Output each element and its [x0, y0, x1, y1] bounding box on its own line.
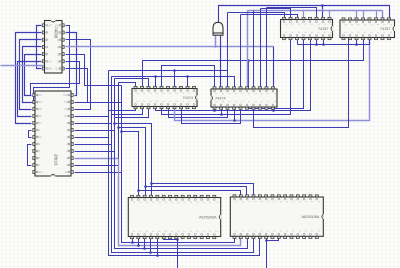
wire U1 pin2R to U2 pin1R	[66, 33, 77, 96]
wire U3 pin7t stub	[174, 71, 176, 89]
wire rail y76.5 bundle v2 to U4 pin4t	[112, 77, 235, 90]
svg-text:I/O0: I/O0	[64, 114, 70, 118]
wire rail y10.5 drop U6p3t	[356, 11, 358, 21]
wire U1 pin7R to U2 pin2R	[66, 69, 88, 103]
junction v1 feed	[120, 130, 123, 133]
wire M2 pin6b down offcanvas	[266, 237, 268, 268]
wire feed V1 to M1 pin2t	[122, 132, 139, 198]
junction M1 pin drop	[143, 247, 146, 250]
junction v2 feed	[117, 126, 120, 129]
junction U4p4b	[233, 119, 236, 122]
svg-text:A: A	[46, 31, 48, 35]
wire rail y110.7 U3p4b to U5 pin5b	[156, 38, 311, 111]
wire bundle v4 lower light wrap rail y245.4 to M2 pin2b	[119, 159, 241, 246]
wire rail y10.5 drop U6p4t	[363, 11, 365, 21]
wire rail y117.3 U3p6b to U4 pin3b	[169, 107, 228, 118]
svg-text:A10: A10	[36, 135, 42, 139]
junction V2 branch	[144, 185, 147, 188]
svg-text:I/O5: I/O5	[36, 107, 42, 111]
wire U1 pin5L to U2 pin1L	[25, 55, 42, 96]
wire M1 bottom pin drop	[138, 237, 140, 246]
wire U2 row144 to bus x111.8	[75, 144, 112, 146]
wire U1 pin6L to U2 pin4L	[18, 62, 42, 117]
wire rail y10.5 drop U5p8t	[329, 11, 331, 20]
IC M2 A625308A SRAM	[230, 195, 323, 239]
svg-text:I/O2: I/O2	[64, 100, 70, 104]
wire M1 pin8b down offcanvas	[177, 237, 179, 268]
svg-text:74374: 74374	[215, 96, 226, 100]
wire U2 row102 extension to bundle v5	[75, 102, 122, 104]
wire U6 pin3b stub	[356, 38, 358, 45]
wire AND output rail y5 to U6 pin8t	[219, 6, 390, 23]
wire rail y10.5 drop U6p6t	[376, 11, 378, 21]
wire rail y65.3 U3p5t to U4 pin1t	[162, 66, 215, 90]
junction U4p1b	[213, 109, 216, 112]
junction U3p4t	[154, 75, 157, 78]
wire U1 pin6R wrap over U2 to pin1L	[31, 62, 80, 96]
junction U3p7t	[173, 69, 176, 72]
svg-text:I/O6: I/O6	[36, 114, 42, 118]
svg-text:74374: 74374	[182, 96, 193, 100]
wire U2 row165 to bus x118.1	[75, 165, 119, 167]
junction M1 pin drop	[156, 254, 159, 257]
wire rail y10.5 drop U5p4t	[303, 11, 305, 20]
wire M1 bottom pin drop	[150, 237, 152, 253]
svg-text:CLK: CLK	[55, 67, 61, 71]
wire feed V2 to M1 pin3t	[119, 128, 146, 198]
wire U3 pin3b left rail y117.3	[115, 107, 149, 118]
wire U4 pin10b stub	[273, 108, 275, 111]
wire bundle v3 wrap rail y248.8 to M2 pin3b	[115, 79, 248, 249]
wire M1 bottom pin drop	[157, 237, 159, 256]
svg-text:CLA: CLA	[46, 60, 52, 64]
wire V3 branch rail to M2 pin4t	[152, 184, 254, 198]
svg-text:I/O4: I/O4	[36, 100, 42, 104]
svg-text:I/O7: I/O7	[36, 121, 42, 125]
IC U2 28c16 EEPROM	[33, 91, 73, 177]
svg-text:CLR: CLR	[46, 24, 53, 28]
IC U4 74374 latch	[211, 87, 278, 109]
wire rail y8.9 to U5 pin2t	[261, 9, 291, 20]
svg-text:A6: A6	[66, 156, 70, 160]
junction M1 pin drop	[149, 251, 152, 254]
wire U2 row130 to bus x114.9	[75, 130, 115, 132]
wire light rail y65.5 from canvas edge to U1	[1, 65, 45, 67]
wire rail y44 U5/U6 bottom tie	[298, 38, 370, 45]
svg-text:I/O1: I/O1	[64, 107, 70, 111]
svg-text:74068: 74068	[54, 27, 59, 39]
svg-text:A625308A: A625308A	[199, 215, 217, 219]
svg-text:OE: OE	[36, 142, 40, 146]
wire U1 pin1R-pin7R tie wrap to U2 pin2L	[32, 26, 70, 103]
wire U3 pin2b left rail y114	[112, 107, 143, 115]
wire U1 pin7R stub to tie	[66, 68, 70, 70]
wire rail y7.5 to U5 pin6t	[267, 8, 317, 20]
junction U5p7b rail44	[322, 43, 325, 46]
svg-text:A7: A7	[66, 163, 70, 167]
wire rail y123.5 U3p8b to U4 pin5b	[182, 107, 241, 124]
svg-text:Q4: Q4	[57, 60, 61, 64]
wire rail y8.9 drop U4 pin8t	[260, 9, 262, 90]
svg-text:Q2: Q2	[57, 45, 61, 49]
junction y5 U5p7t	[321, 4, 324, 7]
svg-text:74157: 74157	[380, 27, 391, 31]
junction M2 pin6b	[265, 239, 268, 242]
junction U4p10b	[272, 109, 275, 112]
wire V1 branch rail to M2 pin2t	[139, 191, 241, 198]
wire U4 pin4b stub	[234, 108, 236, 121]
wire bundle v2 wrap rail y252.2 to M2 pin4b	[112, 77, 254, 253]
wire y5 branch to U5 pin7t	[322, 6, 324, 20]
wire M1 bottom pin drop	[132, 237, 134, 243]
junction U5p6b rail44	[315, 43, 318, 46]
wire U1 pin1L-pin7L tie	[37, 26, 42, 69]
junction V1 branch	[137, 189, 140, 192]
wire bundle v4 upper	[118, 83, 120, 159]
wire U4 pin9b stub	[266, 108, 268, 109]
svg-text:A1: A1	[66, 121, 70, 125]
wire feed V3 to M1 pin4t	[115, 124, 152, 198]
svg-text:VCC: VCC	[36, 170, 43, 174]
wire bundle v1 wrap rail y255.6 to M2 pin5b	[109, 71, 260, 256]
junction M1p8b rail end	[176, 238, 179, 241]
wire U1 pin5R to bundle v5	[66, 55, 122, 86]
svg-text:A625308A: A625308A	[302, 215, 320, 219]
wire U5 pin3b stub	[297, 38, 299, 45]
IC U6 74157 mux	[340, 18, 395, 40]
wire rail y10.5 drop U4 pin6t	[247, 11, 249, 90]
wire rail y82.3 bundle v4 to U3 pin1t	[119, 83, 136, 89]
svg-text:A11: A11	[65, 170, 70, 174]
junction rail46 AND input	[214, 45, 217, 48]
wire light rail y120 U3p7b to U6 pin5b	[175, 38, 370, 121]
wire rail y60.8 U3p2t to U6 pin4b	[143, 38, 364, 89]
wire U2 pin6L-7L bracket	[29, 131, 32, 138]
wire branch x248 down to U5 pin4b	[249, 38, 304, 109]
junction M1 pin drop	[131, 241, 134, 244]
wire AND right input to U4 pin2t	[220, 36, 222, 90]
wire U3 pin1b left rail y110.7	[109, 107, 136, 111]
wire bundle v5 wrap rail y242 to M2 pin1b	[122, 86, 235, 243]
wire U4 pin3t riser to rail y12.6	[227, 13, 229, 71]
svg-text:A2: A2	[66, 128, 70, 132]
wire rail y78.8 bundle v3 to U3 pin3t	[115, 79, 149, 89]
wire U5 pin6b stub	[316, 38, 318, 45]
svg-text:I/O3: I/O3	[36, 93, 42, 97]
wire light rail y10.5	[248, 10, 383, 12]
svg-text:28c16: 28c16	[53, 154, 58, 166]
wire U1 pin4R light rail y46	[66, 46, 274, 48]
wire U2 row158 light to bundle v4	[75, 158, 119, 160]
wire M1 bottom pin drop	[144, 237, 146, 249]
svg-text:GND: GND	[63, 93, 71, 97]
junction U4p9b	[265, 107, 268, 110]
wire rail y70 bundle v1 to U4 pin3t	[109, 71, 228, 90]
IC U3 74374 latch	[132, 86, 198, 108]
wire rail y114 U3p5b to U5 pin2b	[162, 38, 291, 115]
svg-text:A0: A0	[36, 163, 40, 167]
svg-text:Q1: Q1	[57, 38, 61, 42]
wire AND gate left input drop	[215, 36, 217, 47]
IC U5 74157 mux	[281, 17, 334, 39]
svg-text:CE: CE	[36, 128, 40, 132]
wire U2 row151 to bus x114.9	[75, 151, 115, 153]
wire rail y10.5 drop U6 pin7t	[382, 11, 384, 21]
wire U3 pin9t stub	[187, 77, 189, 89]
svg-text:A4: A4	[66, 142, 70, 146]
wire U2 pin8L-11L bracket	[28, 145, 32, 166]
junction V3 branch	[150, 182, 153, 185]
wire rail y127.5 U4p7b to U6 pin2b	[254, 38, 349, 128]
wire U5 pin7b stub	[323, 38, 325, 45]
IC U1 74161 counter	[42, 20, 64, 73]
wire rail y14.7 drop U4 pin5t	[240, 15, 242, 90]
wire rail y14.7 to U5 pin3t	[241, 15, 298, 20]
wire U1 pin2L to U2 pin5L	[16, 33, 42, 124]
wire U1 pin3L to U2 pin3L	[20, 40, 42, 110]
AND gate G1	[213, 22, 223, 35]
wire U2 row172 to bus x121.5	[75, 172, 122, 174]
wire U1 pin3R to U2 pin3R	[66, 40, 91, 110]
wire U3 pin4t stub	[155, 77, 157, 89]
wire rail y10.5 drop U4 pin7t	[253, 11, 255, 90]
svg-text:B: B	[46, 38, 48, 42]
svg-text:74157: 74157	[318, 27, 329, 31]
wire U2 row116 to bus x108.7	[75, 116, 109, 118]
svg-text:A5: A5	[66, 149, 70, 153]
junction M1 pin drop	[137, 244, 140, 247]
junction U6p3b rail44	[355, 43, 358, 46]
junction v3 feed	[113, 122, 116, 125]
wire rail y46 drop to U4 pin10t	[273, 47, 275, 90]
wire U1 pin4L to U2 pin2L	[23, 47, 42, 103]
wire M2 pin6b branch to pin8b	[267, 237, 279, 241]
IC M1 A625308A SRAM	[128, 195, 221, 238]
wire U4 pin2b stub	[221, 108, 223, 115]
junction U3p9t	[186, 75, 189, 78]
wire U4 pin1b stub	[214, 108, 216, 111]
wire M1 pin6b rail y239.7 to M1 pin8b line	[164, 237, 178, 240]
svg-text:GND: GND	[46, 67, 54, 71]
wire rail y12.6 to U5 pin1t	[228, 13, 285, 20]
wire U2 row123 to bus x111.8	[75, 123, 112, 125]
wire V2 branch rail to M2 pin3t	[146, 187, 247, 198]
svg-text:A8: A8	[36, 156, 40, 160]
svg-text:A9: A9	[36, 149, 40, 153]
svg-text:Q3: Q3	[57, 52, 61, 56]
junction rail y60.8 branch	[247, 59, 250, 62]
svg-text:A3: A3	[66, 135, 70, 139]
junction U4p2b	[220, 113, 223, 116]
wire U2 row137 to bus x108.7	[75, 137, 109, 139]
wire rail y7.5 drop U4 pin9t	[266, 8, 268, 90]
